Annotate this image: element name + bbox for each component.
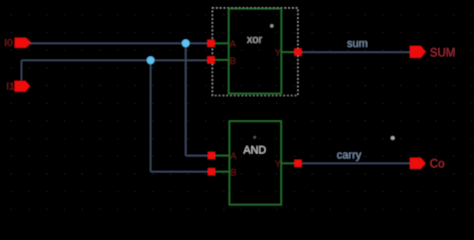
svg-text:B: B xyxy=(230,168,236,179)
port Co arrow xyxy=(410,158,426,169)
wire net sum xyxy=(302,51,410,53)
xor pin B stub xyxy=(215,59,229,61)
svg-text:I0: I0 xyxy=(4,38,13,49)
wire net B horizontal into AND pin B xyxy=(151,171,208,173)
AND pin Y stub xyxy=(281,162,294,164)
xor pin Y stub xyxy=(281,51,294,53)
xor instance selection dashed box xyxy=(212,8,298,96)
xor gate body xyxy=(229,9,282,94)
xor pin B square xyxy=(207,56,214,63)
wire net carry xyxy=(302,162,410,164)
port I1 label xyxy=(6,82,15,93)
xor origin dot xyxy=(270,24,273,27)
svg-text:A: A xyxy=(230,39,237,50)
junction dot net B xyxy=(147,56,155,64)
xor pin A label xyxy=(230,39,237,50)
wire net B vertical drop to AND xyxy=(150,60,152,171)
svg-text:A: A xyxy=(230,151,237,162)
svg-text:Y: Y xyxy=(275,48,282,59)
xor pin Y square xyxy=(294,49,301,56)
xor pin A stub xyxy=(215,42,229,44)
xor label xyxy=(247,34,263,46)
AND pin B stub xyxy=(215,171,229,173)
port SUM arrow xyxy=(410,46,426,58)
svg-text:Y: Y xyxy=(275,159,282,170)
cursor marker dot xyxy=(391,136,395,140)
AND origin dot xyxy=(253,136,256,139)
AND pin B label xyxy=(230,168,236,179)
AND pin A label xyxy=(230,151,237,162)
svg-text:SUM: SUM xyxy=(430,48,456,60)
wire net B horizontal to XOR pin B xyxy=(22,59,208,61)
AND pin Y label xyxy=(275,159,282,170)
svg-text:I1: I1 xyxy=(6,82,15,93)
wire net A horizontal into AND pin A xyxy=(186,155,208,157)
net label sum xyxy=(347,38,368,50)
AND pin B square xyxy=(208,168,215,175)
wire net B vertical from I1 xyxy=(21,60,23,80)
svg-text:Co: Co xyxy=(430,159,445,171)
net label carry xyxy=(337,150,362,162)
svg-text:sum: sum xyxy=(347,38,368,50)
port SUM label xyxy=(430,48,456,60)
AND label xyxy=(243,145,266,157)
wire net A vertical drop to AND xyxy=(185,43,187,155)
AND pin A stub xyxy=(215,155,229,157)
svg-text:xor: xor xyxy=(247,34,263,46)
port Co label xyxy=(430,159,445,171)
junction dot net A xyxy=(182,39,190,47)
svg-text:carry: carry xyxy=(337,150,362,162)
port I1 arrow xyxy=(15,81,30,92)
AND gate body xyxy=(229,121,281,205)
AND pin Y square xyxy=(294,160,301,167)
xor pin Y label xyxy=(275,48,282,59)
port I0 label xyxy=(4,38,13,49)
port I0 arrow xyxy=(15,38,31,48)
wire net A horizontal from I0 xyxy=(30,42,208,44)
svg-text:AND: AND xyxy=(243,145,266,157)
xor pin B label xyxy=(230,56,236,67)
AND pin A square xyxy=(208,152,215,159)
svg-text:B: B xyxy=(230,56,236,67)
xor pin A square xyxy=(207,40,214,47)
